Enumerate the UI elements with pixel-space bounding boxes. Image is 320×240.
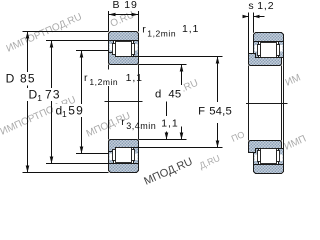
svg-text:59: 59 xyxy=(68,103,84,117)
svg-text:s: s xyxy=(248,0,254,12)
svg-text:1: 1 xyxy=(62,109,67,119)
svg-text:r: r xyxy=(84,72,88,84)
svg-text:1,1: 1,1 xyxy=(126,72,143,84)
svg-text:1: 1 xyxy=(37,93,42,103)
svg-text:1,2: 1,2 xyxy=(257,0,274,12)
svg-text:B 19: B 19 xyxy=(113,0,138,11)
svg-text:73: 73 xyxy=(45,88,61,102)
svg-text:45: 45 xyxy=(168,89,181,101)
svg-text:54,5: 54,5 xyxy=(209,105,232,117)
svg-text:3,4min: 3,4min xyxy=(126,121,156,131)
svg-text:85: 85 xyxy=(20,72,36,86)
svg-text:r: r xyxy=(121,116,125,128)
svg-text:D: D xyxy=(6,72,16,86)
svg-text:1,1: 1,1 xyxy=(161,118,178,130)
svg-text:r: r xyxy=(142,23,146,35)
svg-text:F: F xyxy=(198,105,205,117)
svg-text:1,1: 1,1 xyxy=(182,23,199,35)
svg-text:d: d xyxy=(155,89,161,101)
svg-text:1,2min: 1,2min xyxy=(89,77,118,87)
svg-text:1,2min: 1,2min xyxy=(147,29,176,39)
